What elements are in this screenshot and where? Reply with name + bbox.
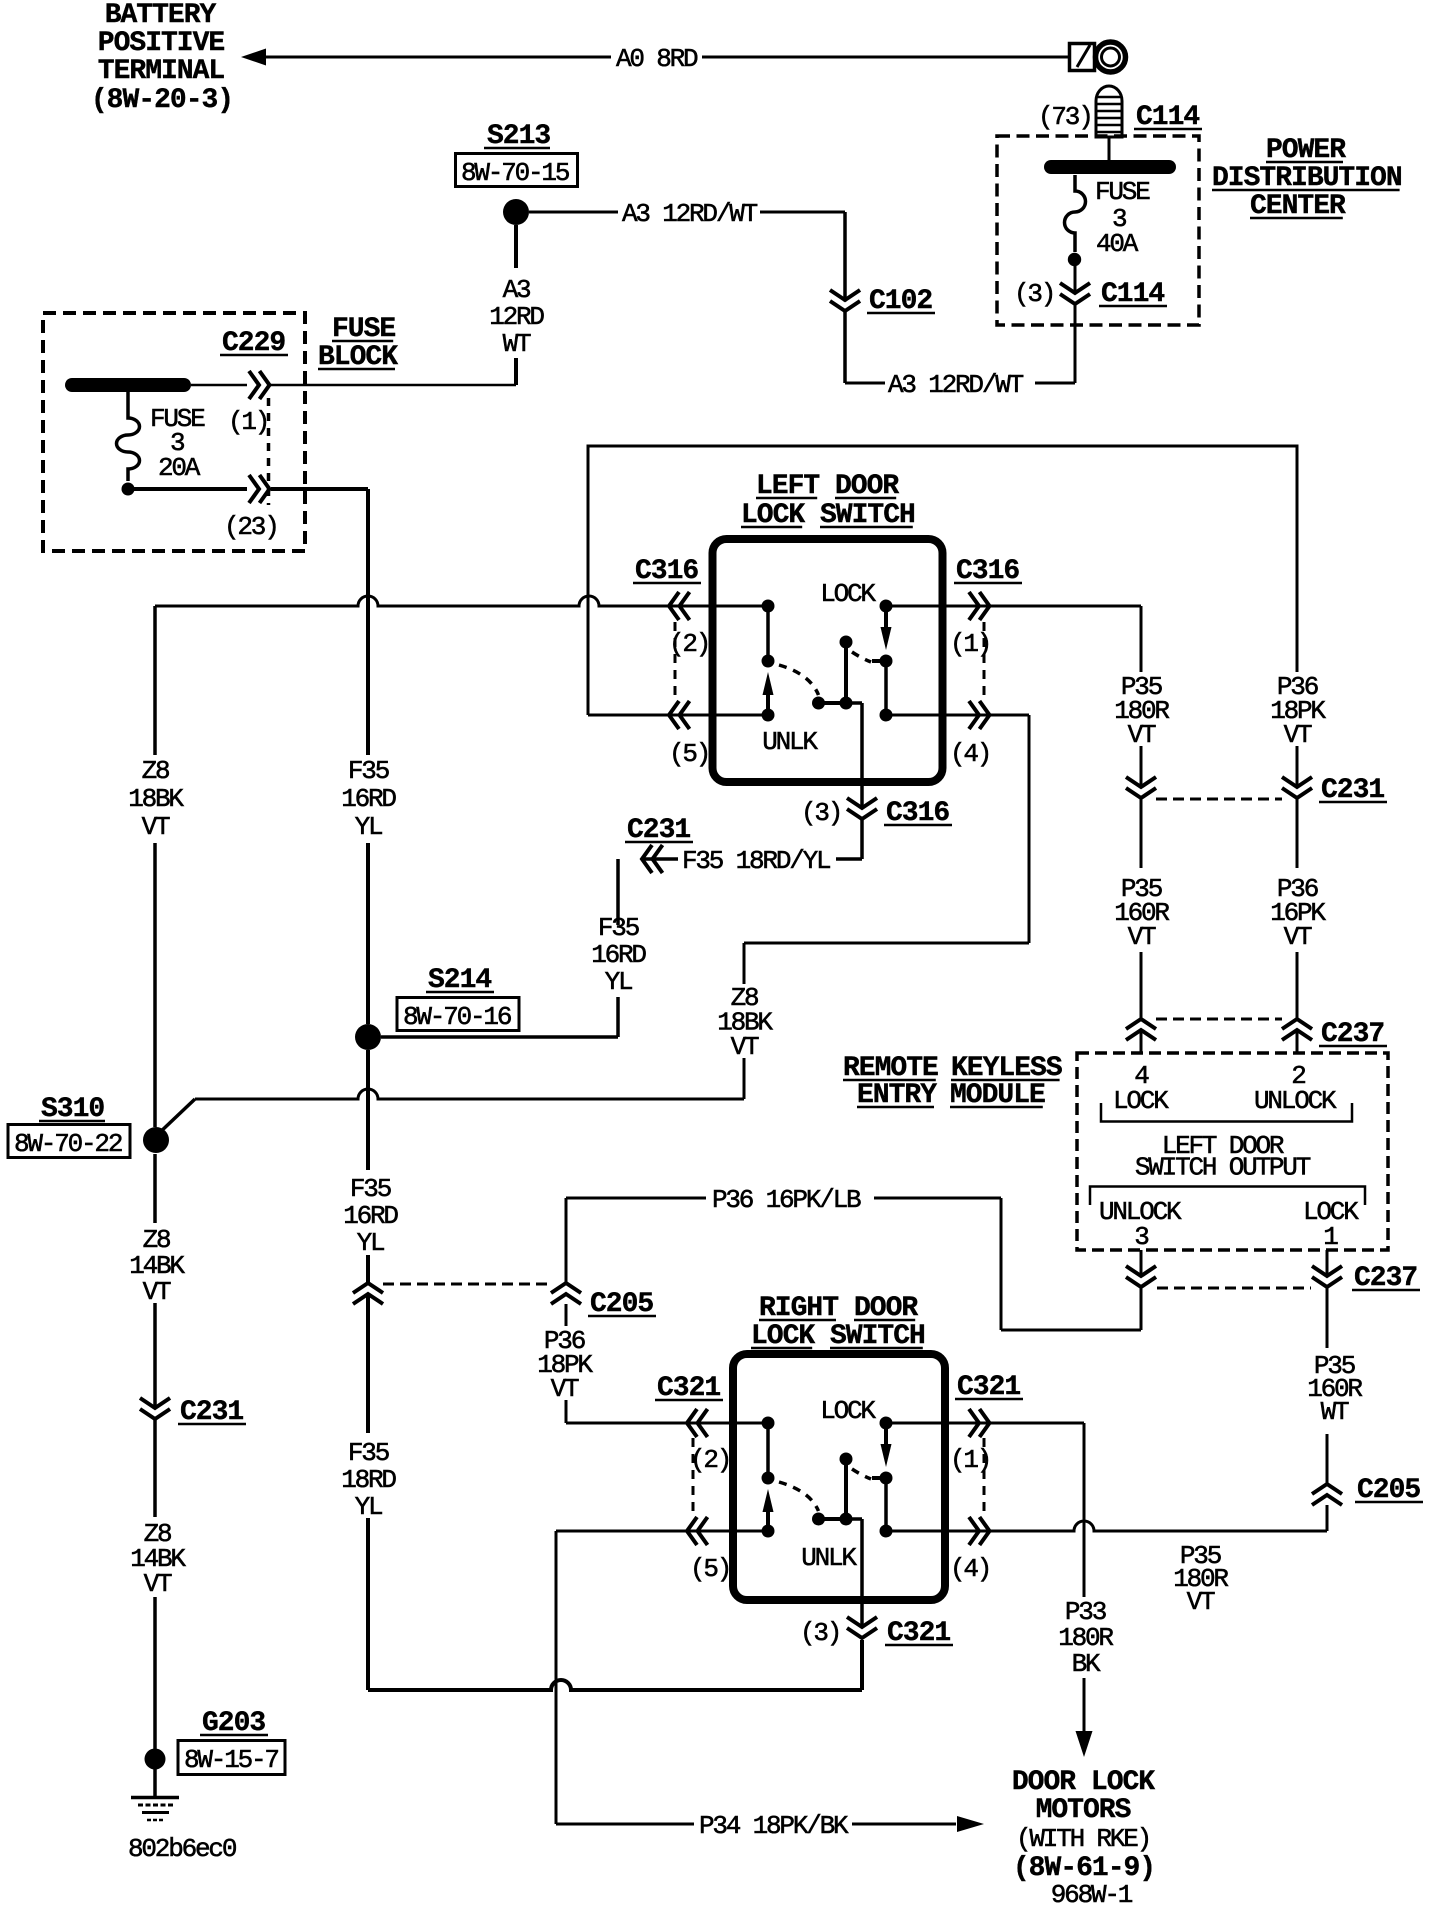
wire bus to C229(1) bbox=[191, 384, 247, 387]
right door lock switch switch pin3 wire bbox=[846, 1517, 862, 1521]
wire top rect bbox=[588, 446, 1297, 715]
wire A3 12RD/WT to C102 bbox=[845, 382, 885, 385]
svg-text:8W-70-22: 8W-70-22 bbox=[14, 1129, 122, 1159]
fuse block dashed box bbox=[43, 313, 305, 551]
svg-text:8W-15-7: 8W-15-7 bbox=[184, 1745, 278, 1775]
left door lock switch switch row2 wire bbox=[713, 714, 769, 717]
svg-text:(1): (1) bbox=[228, 407, 268, 437]
connector C237 pin4 bbox=[1139, 1021, 1144, 1030]
fuse block bus bar bbox=[72, 378, 184, 392]
right door lock switch dashed throw right bbox=[852, 1469, 871, 1479]
right door lock switch right pole arrow down bbox=[884, 1423, 888, 1446]
connector C114 (3) bbox=[1073, 295, 1078, 304]
wire C229(1) to S213 drop bbox=[271, 384, 516, 387]
wire fuse to C114(3) bbox=[1074, 266, 1077, 292]
S213 reference box bbox=[456, 154, 578, 187]
dashed link C231 pair bbox=[1156, 798, 1282, 801]
connector C321 (5) bbox=[687, 1517, 697, 1545]
svg-text:TERMINAL: TERMINAL bbox=[98, 56, 225, 87]
right door lock switch contact dots bbox=[762, 1417, 775, 1430]
left door lock switch left pole line bbox=[766, 606, 770, 661]
svg-text:BK: BK bbox=[1072, 1649, 1101, 1679]
left door lock switch right pole line bbox=[884, 661, 888, 715]
svg-text:VT: VT bbox=[1284, 720, 1312, 750]
svg-text:MOTORS: MOTORS bbox=[1036, 1795, 1131, 1826]
svg-text:8W-70-16: 8W-70-16 bbox=[403, 1002, 511, 1032]
wire RKE pin3 to P36 16PK/LB bbox=[1140, 1287, 1143, 1330]
connector C321 (2) bbox=[687, 1409, 697, 1437]
svg-text:VT: VT bbox=[143, 1277, 171, 1307]
connector C231 P35 bbox=[1139, 789, 1144, 798]
wire S213 down bbox=[514, 225, 518, 268]
wire P36 x1297 segments bbox=[1296, 746, 1299, 868]
connector C229 (1) bbox=[249, 371, 259, 399]
svg-text:(8W-20-3): (8W-20-3) bbox=[91, 85, 233, 116]
svg-text:1: 1 bbox=[1323, 1222, 1338, 1252]
wire P34 to arrow bbox=[852, 1823, 956, 1826]
svg-text:POSITIVE: POSITIVE bbox=[98, 28, 225, 59]
svg-text:DOOR LOCK: DOOR LOCK bbox=[1012, 1767, 1155, 1798]
wire P36 16PK/LB to C205 bbox=[566, 1197, 706, 1200]
svg-text:(3): (3) bbox=[801, 798, 841, 828]
arrow to battery terminal bbox=[241, 49, 266, 66]
left door lock switch MR tick bbox=[872, 659, 886, 663]
right door lock switch right pole line bbox=[884, 1478, 888, 1531]
wire P33 from pin1 bbox=[944, 1422, 1084, 1425]
svg-text:WT: WT bbox=[1321, 1397, 1349, 1427]
svg-text:F35: F35 bbox=[348, 1438, 389, 1468]
svg-text:YL: YL bbox=[357, 1228, 384, 1258]
svg-text:(23): (23) bbox=[224, 512, 278, 542]
connector C205 right bbox=[1325, 1486, 1330, 1495]
svg-text:YL: YL bbox=[355, 1492, 382, 1522]
svg-text:YL: YL bbox=[355, 812, 382, 842]
wire C205 to right switch pin4 bbox=[1326, 1505, 1329, 1531]
svg-text:A0 8RD: A0 8RD bbox=[616, 44, 698, 74]
connector C321 (3) bbox=[860, 1629, 865, 1638]
fuse 3 20A bbox=[117, 392, 140, 481]
wire left pin4 to x1029 bbox=[942, 714, 1029, 717]
left door lock switch center post bbox=[844, 642, 848, 703]
left door lock switch dashed throw left bbox=[779, 665, 819, 695]
S310 reference box bbox=[8, 1125, 130, 1158]
svg-text:A3: A3 bbox=[503, 275, 530, 305]
wire F35 18RD/YL bbox=[836, 857, 862, 861]
svg-text:F35: F35 bbox=[350, 1174, 391, 1204]
connector C205 P36 bbox=[564, 1285, 569, 1294]
svg-text:8W-70-15: 8W-70-15 bbox=[461, 158, 569, 188]
left door lock switch left pole arrow up bbox=[766, 694, 770, 715]
fuse 3 40A bbox=[1065, 175, 1086, 252]
arrow P34 right bbox=[957, 1816, 984, 1832]
PDC bus bar bbox=[1051, 160, 1169, 174]
connector C229 (23) bbox=[249, 475, 259, 503]
dashed link C205 pair bbox=[383, 1283, 551, 1286]
right door lock switch MR tick bbox=[872, 1476, 886, 1480]
svg-text:(3): (3) bbox=[1014, 279, 1054, 309]
wire F35 16RD YL elbow bbox=[616, 859, 620, 925]
wire ground bus y606 bbox=[155, 596, 713, 606]
svg-text:(5): (5) bbox=[669, 739, 709, 769]
connector C237 pin1 bbox=[1325, 1278, 1330, 1287]
svg-text:16RD: 16RD bbox=[343, 1201, 398, 1231]
right door lock switch switch row2 wire bbox=[733, 1530, 768, 1533]
wire Z8 x744 bbox=[743, 1058, 746, 1099]
connector C231 left door bbox=[642, 845, 652, 873]
svg-text:WT: WT bbox=[503, 329, 531, 359]
wire S310 diagonal bbox=[156, 1099, 195, 1136]
dashed link C237 pair bbox=[1156, 1018, 1282, 1021]
svg-text:LOCK: LOCK bbox=[820, 579, 876, 609]
left door lock switch switch pin3 wire bbox=[846, 701, 862, 705]
svg-text:P34 18PK/BK: P34 18PK/BK bbox=[699, 1811, 849, 1841]
power distribution center dashed box bbox=[997, 136, 1199, 325]
left door lock switch dashed throw right bbox=[852, 652, 871, 662]
connector C102 bbox=[843, 302, 848, 311]
wire A3 label to C102 drop bbox=[760, 211, 845, 214]
wire A0 8RD bbox=[264, 56, 611, 59]
connector C316 (2) bbox=[669, 592, 679, 620]
wire F35 to right switch pin3 bbox=[368, 1680, 862, 1690]
wire P36 18PK VT bbox=[565, 1304, 568, 1326]
ground G203 bbox=[145, 1749, 166, 1770]
connector C231 P36 bbox=[1295, 789, 1300, 798]
wire S213 drop lower bbox=[514, 358, 518, 385]
svg-text:3: 3 bbox=[1134, 1222, 1148, 1252]
left door lock switch switch box bbox=[713, 539, 943, 782]
wire fusible link to bus bbox=[1108, 137, 1111, 161]
svg-text:40A: 40A bbox=[1096, 229, 1139, 259]
wire P35 160R WT bbox=[1326, 1287, 1329, 1348]
svg-text:A3 12RD/WT: A3 12RD/WT bbox=[888, 370, 1024, 400]
connector C321 (4) bbox=[969, 1517, 979, 1545]
svg-text:P36 16PK/LB: P36 16PK/LB bbox=[712, 1185, 861, 1215]
svg-text:VT: VT bbox=[1128, 720, 1156, 750]
connector C316 (3) bbox=[860, 810, 865, 819]
wire S213 to A3 label bbox=[529, 211, 618, 214]
svg-text:(5): (5) bbox=[690, 1554, 730, 1584]
C316 dashed boundaries bbox=[674, 622, 677, 699]
RKE upper bracket bbox=[1101, 1103, 1352, 1122]
svg-text:(3): (3) bbox=[800, 1618, 840, 1648]
svg-text:968W-1: 968W-1 bbox=[1051, 1880, 1133, 1906]
connector C229 dashed boundary bbox=[267, 398, 271, 505]
splice S310 bbox=[143, 1127, 169, 1153]
arrow P33 down bbox=[1076, 1731, 1093, 1757]
svg-text:18RD: 18RD bbox=[341, 1465, 396, 1495]
right door lock switch switch box bbox=[733, 1354, 945, 1600]
svg-text:20A: 20A bbox=[158, 453, 201, 483]
right door lock switch switch row1 wire bbox=[733, 1422, 768, 1425]
G203 reference box bbox=[178, 1741, 285, 1775]
wire A3 from PDC bbox=[1074, 304, 1077, 383]
dashed link C237 bottom bbox=[1157, 1287, 1311, 1290]
connector C321 (1) bbox=[969, 1409, 979, 1437]
svg-text:VT: VT bbox=[1128, 922, 1156, 952]
left door lock switch contact dots bbox=[762, 600, 775, 613]
svg-text:VT: VT bbox=[1187, 1587, 1215, 1617]
RKE module dashed box bbox=[1077, 1053, 1388, 1250]
wire right pin5 to P34 bbox=[556, 1530, 734, 1533]
wire F35 vertical bbox=[366, 489, 370, 755]
C321 dashed boundaries bbox=[692, 1438, 695, 1515]
svg-text:(WITH RKE): (WITH RKE) bbox=[1016, 1824, 1150, 1854]
svg-text:YL: YL bbox=[605, 967, 632, 997]
wire left pin1 to x1141 bbox=[942, 605, 1141, 608]
svg-text:A3 12RD/WT: A3 12RD/WT bbox=[622, 199, 758, 229]
svg-text:BATTERY: BATTERY bbox=[105, 0, 217, 31]
svg-text:LOCK: LOCK bbox=[820, 1396, 876, 1426]
connector C231 on Z8 bbox=[153, 1410, 158, 1419]
wire y943 corner bbox=[744, 942, 1029, 945]
svg-text:F35 18RD/YL: F35 18RD/YL bbox=[682, 846, 830, 876]
svg-text:UNLK: UNLK bbox=[762, 727, 818, 757]
left door lock switch right pole arrow down bbox=[884, 606, 888, 629]
svg-text:(4): (4) bbox=[950, 1554, 990, 1584]
svg-text:SWITCH OUTPUT: SWITCH OUTPUT bbox=[1135, 1153, 1311, 1183]
svg-text:F35: F35 bbox=[348, 756, 389, 786]
svg-text:VT: VT bbox=[1284, 922, 1312, 952]
svg-text:VT: VT bbox=[142, 812, 170, 842]
connector C237 pin2 bbox=[1295, 1021, 1300, 1030]
svg-text:VT: VT bbox=[731, 1032, 759, 1062]
wire RKE pin1 stub bbox=[1326, 1250, 1329, 1276]
splice S213 bbox=[503, 199, 529, 225]
svg-text:802b6ec0: 802b6ec0 bbox=[128, 1834, 236, 1864]
RKE lower bracket bbox=[1090, 1187, 1365, 1206]
svg-text:(73): (73) bbox=[1038, 102, 1092, 132]
wire left pin3 down bbox=[860, 819, 864, 859]
ring terminal eyelet bbox=[1070, 44, 1095, 71]
wire fuse to C229(23) bbox=[134, 487, 247, 491]
right door lock switch left pole arrow up bbox=[766, 1511, 770, 1531]
connector C316 (1) bbox=[969, 592, 979, 620]
wire Z8 y1099 bbox=[195, 1089, 744, 1099]
wire P35 x1141 segments bbox=[1140, 606, 1143, 672]
wire RKE pin3 stub bbox=[1140, 1250, 1143, 1276]
connector C205 F35 bbox=[366, 1285, 371, 1294]
svg-text:LOCK: LOCK bbox=[1113, 1086, 1169, 1116]
S214 reference box bbox=[397, 998, 519, 1031]
svg-text:(4): (4) bbox=[950, 739, 990, 769]
right door lock switch center post bbox=[844, 1459, 848, 1519]
svg-text:Z8: Z8 bbox=[142, 756, 169, 786]
svg-text:18BK: 18BK bbox=[128, 784, 184, 814]
right door lock switch left pole line bbox=[766, 1423, 770, 1478]
svg-text:16RD: 16RD bbox=[591, 940, 646, 970]
svg-text:UNLOCK: UNLOCK bbox=[1254, 1086, 1337, 1116]
connector C316 (5) bbox=[669, 701, 679, 729]
svg-text:VT: VT bbox=[551, 1374, 579, 1404]
splice S214 bbox=[355, 1024, 381, 1050]
svg-text:FUSE: FUSE bbox=[1095, 177, 1150, 207]
right door lock switch dashed throw left bbox=[779, 1482, 819, 1511]
left door lock switch switch row1 wire bbox=[713, 605, 769, 608]
wire C229(23) to F35 corner bbox=[271, 487, 368, 491]
fusible link (73) C114 bbox=[1096, 86, 1122, 137]
svg-text:VT: VT bbox=[144, 1569, 172, 1599]
svg-text:(2): (2) bbox=[690, 1445, 730, 1475]
connector C237 pin3 bbox=[1139, 1278, 1144, 1287]
svg-text:12RD: 12RD bbox=[489, 302, 544, 332]
svg-text:16RD: 16RD bbox=[341, 784, 396, 814]
connector C316 (4) bbox=[969, 701, 979, 729]
wire Z8 vertical x155 bbox=[153, 606, 157, 755]
svg-text:UNLK: UNLK bbox=[801, 1543, 857, 1573]
svg-text:F35: F35 bbox=[598, 913, 639, 943]
